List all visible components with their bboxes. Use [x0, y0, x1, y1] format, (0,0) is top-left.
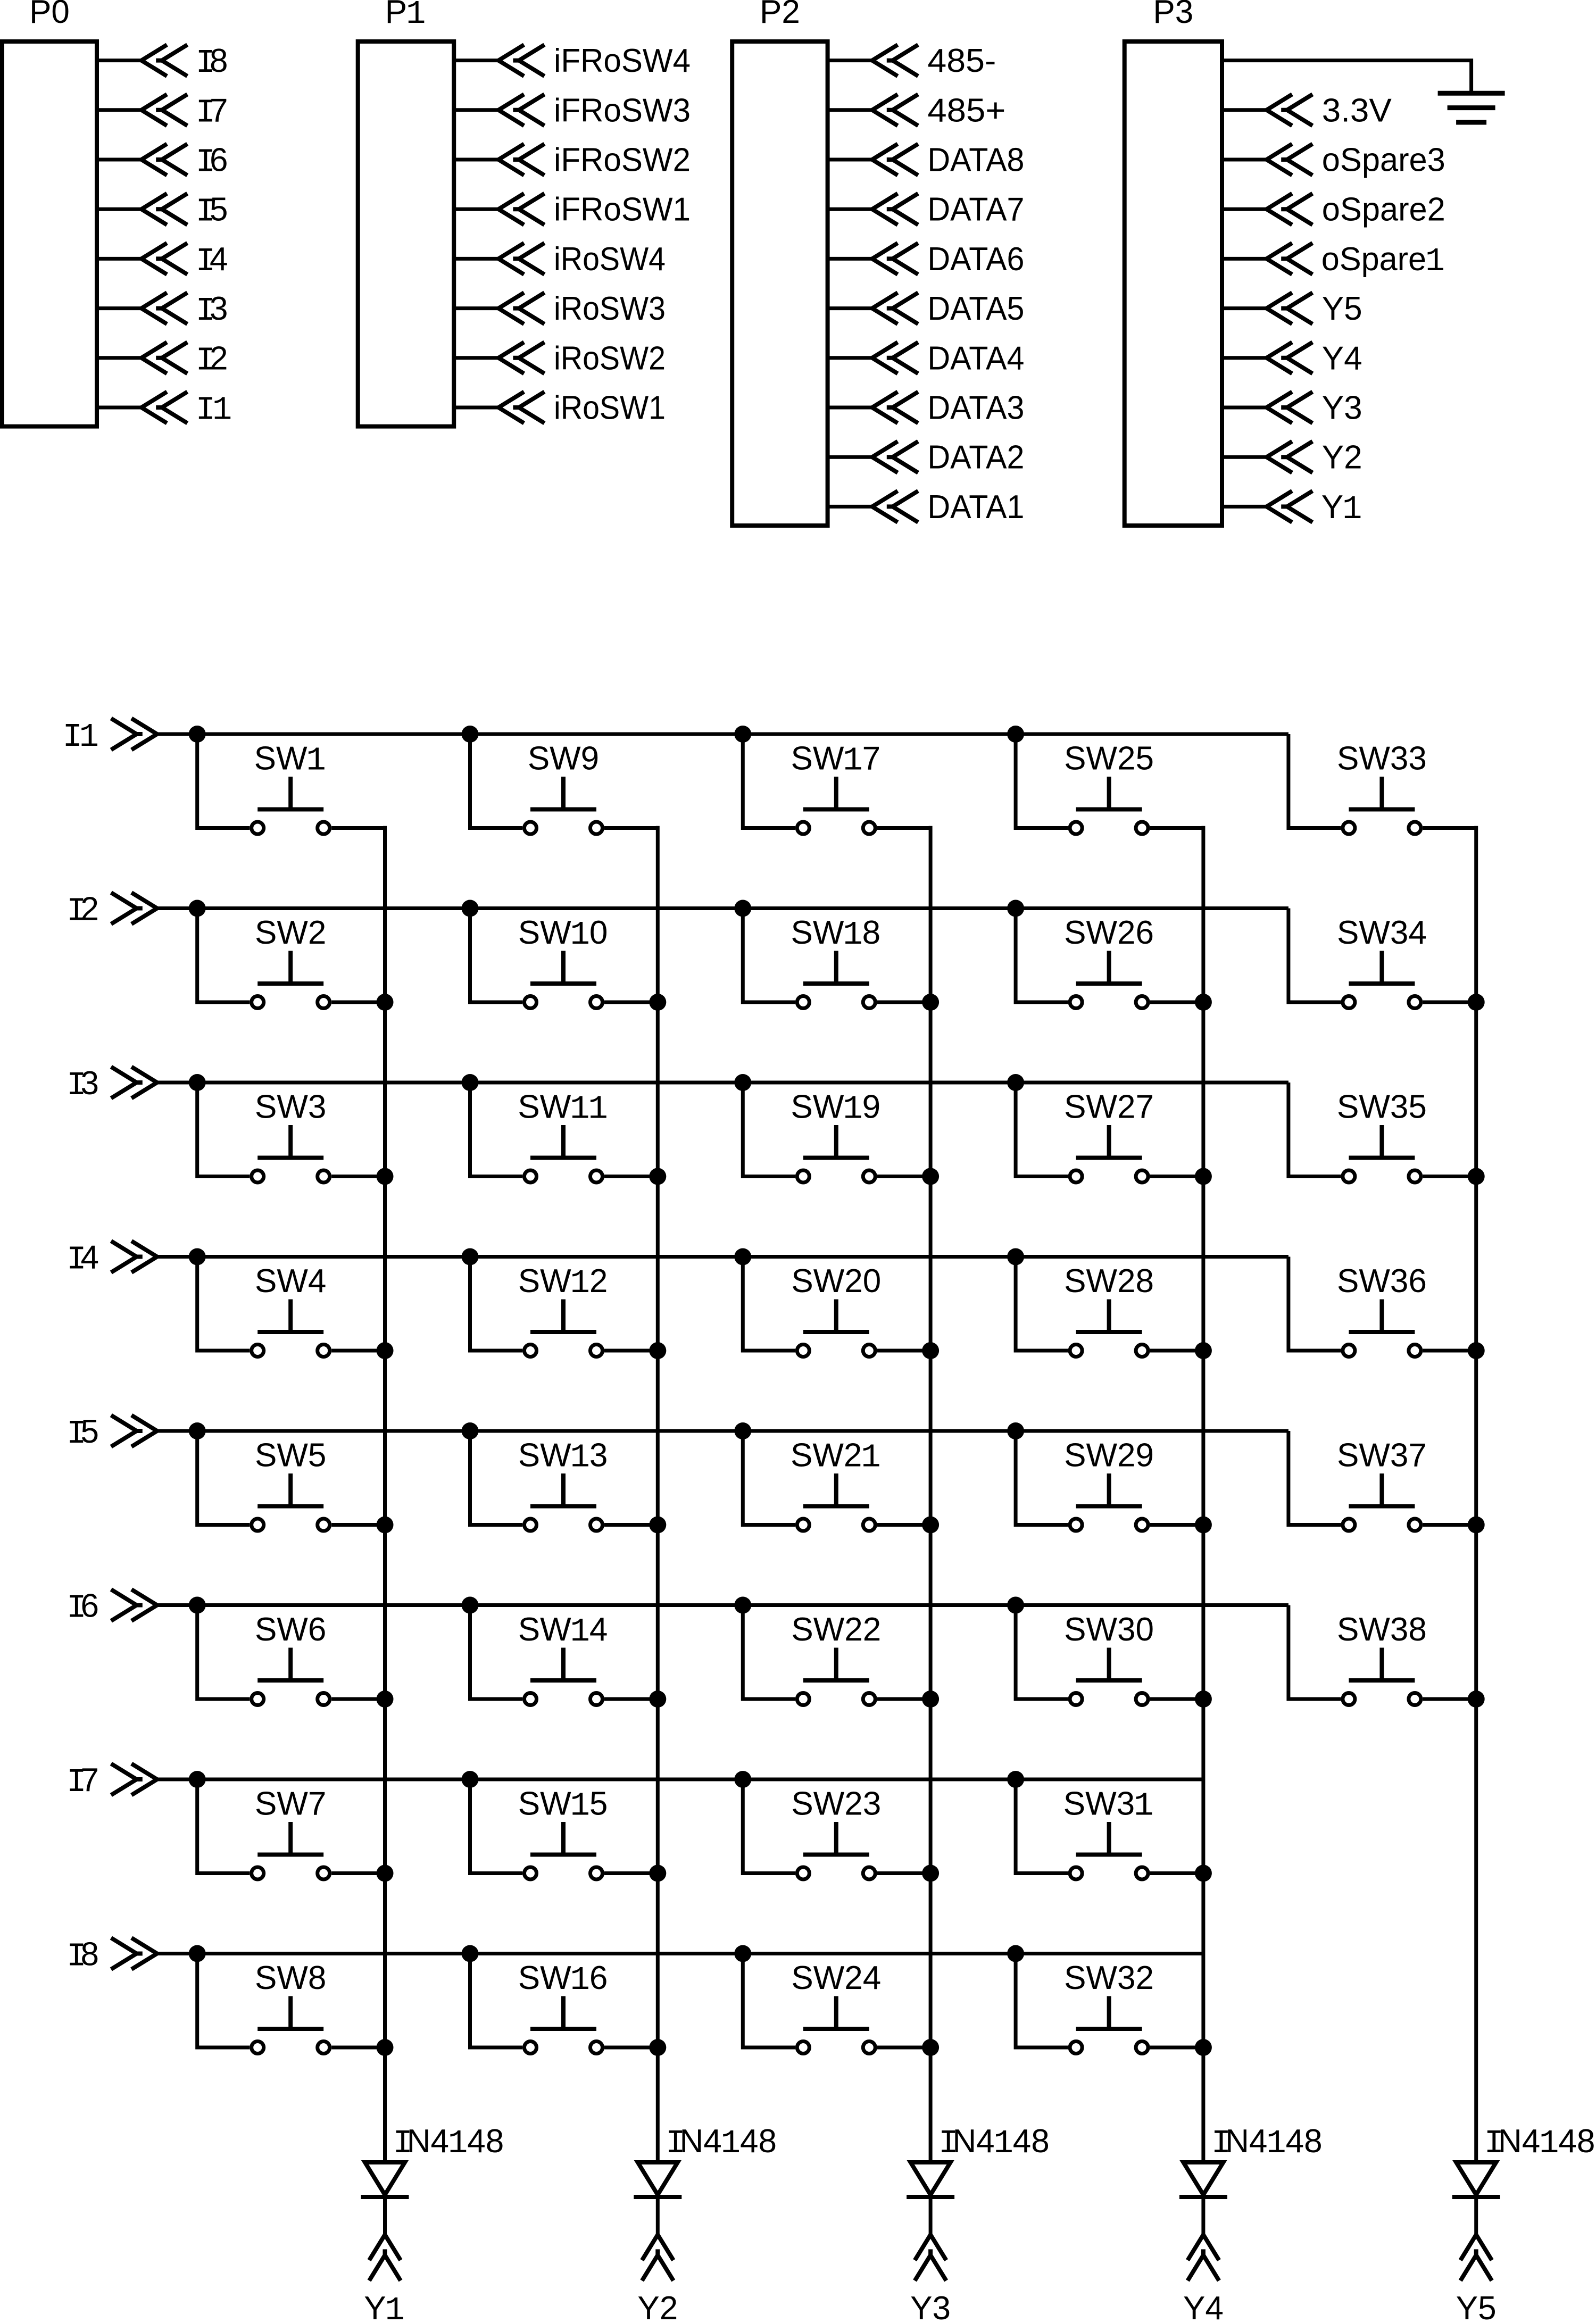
- svg-text:485+: 485+: [927, 92, 1005, 129]
- svg-text:iFRoSW4: iFRoSW4: [554, 43, 691, 79]
- pin oSpare1: wire, input port chevrons and label: [1222, 241, 1445, 280]
- pin Y2: wire, input port chevrons and label: [1222, 439, 1362, 476]
- switch SW1 (push button): stub wire, pins, actuator, label, output wire: [197, 734, 385, 834]
- pin iRoSW2: wire, input port chevrons and label: [454, 340, 666, 377]
- svg-text:SW27: SW27: [1064, 1089, 1154, 1126]
- svg-text:P2: P2: [760, 0, 800, 30]
- input port I5 (matrix row 5) with label: [66, 1413, 157, 1453]
- svg-text:SW3: SW3: [255, 1089, 326, 1126]
- svg-text:SW23: SW23: [791, 1786, 881, 1822]
- junction dots on row I8: [189, 1945, 1024, 1962]
- svg-text:SW35: SW35: [1337, 1089, 1427, 1126]
- pin I7: wire, input port chevrons and label: [97, 92, 228, 131]
- svg-text:IN4148: IN4148: [938, 2123, 1050, 2162]
- pin iFRoSW4: wire, input port chevrons and label: [454, 43, 691, 79]
- switch SW31 (push button): stub wire, pins, actuator, label, output wire: [1016, 1779, 1203, 1879]
- switch SW35 (push button): stub wire, pins, actuator, label, output wire: [1289, 1083, 1476, 1183]
- switch SW7 (push button): stub wire, pins, actuator, label, output wire: [197, 1779, 385, 1879]
- svg-text:DATA5: DATA5: [927, 290, 1024, 327]
- wire: row I3 horizontal bus: [157, 1081, 1289, 1085]
- pin DATA6: wire, input port chevrons and label: [828, 241, 1025, 278]
- wire: column bus 3 (net Y3): [929, 826, 933, 2162]
- ground symbol: [1438, 93, 1505, 122]
- pin oSpare2: wire, input port chevrons and label: [1222, 191, 1445, 228]
- pin DATA1: wire, input port chevrons and label: [828, 489, 1025, 526]
- junction dots on row I7: [189, 1771, 1024, 1788]
- switch SW6 (push button): stub wire, pins, actuator, label, output wire: [197, 1605, 385, 1705]
- svg-text:SW24: SW24: [791, 1960, 881, 1996]
- wire from P3 pin 1 to ground: [1222, 61, 1472, 93]
- pin I5: wire, input port chevrons and label: [97, 191, 228, 231]
- svg-text:I4: I4: [196, 241, 228, 280]
- svg-text:SW20: SW20: [791, 1263, 881, 1300]
- switch SW16 (push button): stub wire, pins, actuator, label, output wire: [470, 1954, 658, 2054]
- svg-text:SW11: SW11: [518, 1089, 608, 1128]
- svg-text:Y3: Y3: [1322, 390, 1362, 427]
- switch SW17 (push button): stub wire, pins, actuator, label, output wire: [743, 734, 930, 834]
- svg-text:Y3: Y3: [910, 2290, 951, 2323]
- connector P1 body: [358, 41, 454, 427]
- switch SW12 (push button): stub wire, pins, actuator, label, output wire: [470, 1257, 658, 1357]
- output port Y1 (down): [369, 2235, 401, 2280]
- junction dots on row I2: [189, 900, 1024, 917]
- svg-text:I1: I1: [63, 718, 99, 756]
- junction dots on row I6: [189, 1597, 1024, 1614]
- pin DATA5: wire, input port chevrons and label: [828, 290, 1025, 327]
- svg-text:485-: 485-: [927, 43, 996, 79]
- switch SW15 (push button): stub wire, pins, actuator, label, output wire: [470, 1779, 658, 1879]
- pin DATA3: wire, input port chevrons and label: [828, 390, 1025, 427]
- switch SW36 (push button): stub wire, pins, actuator, label, output wire: [1289, 1257, 1476, 1357]
- svg-text:I3: I3: [66, 1065, 99, 1104]
- svg-text:SW36: SW36: [1337, 1263, 1427, 1300]
- svg-text:SW37: SW37: [1337, 1437, 1427, 1474]
- svg-text:I6: I6: [196, 142, 228, 181]
- svg-text:SW4: SW4: [255, 1263, 326, 1300]
- wire: column bus 1 (net Y1): [383, 826, 387, 2162]
- junction dots on row I4: [189, 1248, 1024, 1265]
- switch SW2 (push button): stub wire, pins, actuator, label, output wire: [197, 909, 385, 1009]
- pin I2: wire, input port chevrons and label: [97, 340, 228, 379]
- switch SW23 (push button): stub wire, pins, actuator, label, output wire: [743, 1779, 930, 1879]
- wire: column bus 4 (net Y4): [1201, 826, 1205, 2162]
- svg-text:SW32: SW32: [1064, 1960, 1154, 1996]
- svg-text:iRoSW2: iRoSW2: [554, 340, 666, 377]
- connector P2 body: [732, 41, 827, 526]
- svg-text:iRoSW1: iRoSW1: [554, 390, 666, 427]
- pin Y3: wire, input port chevrons and label: [1222, 390, 1362, 427]
- svg-text:SW14: SW14: [518, 1611, 608, 1651]
- junction dots on row I1: [189, 726, 1024, 743]
- svg-text:DATA2: DATA2: [927, 439, 1024, 476]
- connector P3 body: [1125, 41, 1222, 526]
- switch SW34 (push button): stub wire, pins, actuator, label, output wire: [1289, 909, 1476, 1009]
- svg-text:P3: P3: [1153, 0, 1193, 30]
- svg-text:I7: I7: [66, 1762, 99, 1801]
- svg-text:SW9: SW9: [528, 740, 599, 777]
- svg-text:SW26: SW26: [1064, 914, 1154, 951]
- switch SW24 (push button): stub wire, pins, actuator, label, output wire: [743, 1954, 930, 2054]
- wire: column bus 5 (net Y5): [1474, 826, 1478, 2162]
- svg-text:Y1: Y1: [1321, 489, 1362, 528]
- svg-text:DATA1: DATA1: [927, 489, 1024, 526]
- output port Y2 (down): [642, 2235, 674, 2280]
- svg-text:IN4148: IN4148: [1484, 2123, 1595, 2162]
- svg-text:SW22: SW22: [791, 1611, 881, 1648]
- pin iRoSW1: wire, input port chevrons and label: [454, 390, 666, 427]
- svg-text:iFRoSW1: iFRoSW1: [554, 191, 691, 228]
- switch SW10 (push button): stub wire, pins, actuator, label, output wire: [470, 909, 658, 1009]
- pin iFRoSW3: wire, input port chevrons and label: [454, 92, 691, 129]
- junction dots on row I3: [189, 1074, 1024, 1091]
- wire: row I2 horizontal bus: [157, 906, 1289, 910]
- pin I1: wire, input port chevrons and label: [97, 392, 232, 429]
- wire: row I1 horizontal bus: [157, 732, 1289, 736]
- switch SW30 (push button): stub wire, pins, actuator, label, output wire: [1016, 1605, 1203, 1705]
- diode D5 IN4148 (anode up, cathode down): [1452, 2162, 1500, 2234]
- switch SW18 (push button): stub wire, pins, actuator, label, output wire: [743, 909, 930, 1009]
- svg-text:3.3V: 3.3V: [1322, 92, 1392, 129]
- svg-text:Y4: Y4: [1322, 340, 1362, 377]
- pin I8: wire, input port chevrons and label: [97, 43, 228, 82]
- switch SW26 (push button): stub wire, pins, actuator, label, output wire: [1016, 909, 1203, 1009]
- switch SW22 (push button): stub wire, pins, actuator, label, output wire: [743, 1605, 930, 1705]
- svg-text:IN4148: IN4148: [666, 2123, 777, 2162]
- wire: row I5 horizontal bus: [157, 1429, 1289, 1433]
- svg-text:SW17: SW17: [791, 740, 881, 780]
- switch SW20 (push button): stub wire, pins, actuator, label, output wire: [743, 1257, 930, 1357]
- svg-text:P1: P1: [385, 0, 426, 33]
- svg-text:I2: I2: [196, 340, 228, 379]
- switch SW8 (push button): stub wire, pins, actuator, label, output wire: [197, 1954, 385, 2054]
- pin DATA7: wire, input port chevrons and label: [828, 191, 1025, 228]
- svg-text:Y4: Y4: [1183, 2290, 1224, 2323]
- diode D4 IN4148 (anode up, cathode down): [1179, 2162, 1227, 2234]
- svg-text:I5: I5: [196, 191, 228, 231]
- svg-text:I8: I8: [66, 1936, 99, 1976]
- svg-text:SW16: SW16: [518, 1960, 608, 1999]
- svg-text:DATA4: DATA4: [927, 340, 1024, 377]
- svg-text:I4: I4: [66, 1239, 99, 1279]
- switch SW11 (push button): stub wire, pins, actuator, label, output wire: [470, 1083, 658, 1183]
- junction dots on column bus 1: [377, 994, 394, 2056]
- diode D2 IN4148 (anode up, cathode down): [634, 2162, 681, 2234]
- svg-text:I2: I2: [66, 891, 99, 930]
- svg-text:SW21: SW21: [791, 1437, 881, 1477]
- switch SW21 (push button): stub wire, pins, actuator, label, output wire: [743, 1431, 930, 1531]
- input port I7 (matrix row 7) with label: [66, 1762, 157, 1801]
- pin 485-: wire, input port chevrons and label: [828, 43, 996, 79]
- svg-text:iRoSW3: iRoSW3: [554, 290, 666, 327]
- output port Y3 (down): [915, 2235, 946, 2280]
- svg-text:DATA8: DATA8: [927, 142, 1024, 179]
- svg-text:iFRoSW2: iFRoSW2: [554, 142, 691, 179]
- svg-text:SW29: SW29: [1064, 1437, 1154, 1474]
- svg-text:I1: I1: [196, 392, 232, 429]
- wire: row I4 horizontal bus: [157, 1255, 1289, 1259]
- svg-text:SW12: SW12: [518, 1263, 608, 1302]
- svg-text:oSpare3: oSpare3: [1322, 142, 1445, 179]
- svg-text:SW34: SW34: [1337, 914, 1427, 951]
- input port I1 (matrix row 1) with label: [63, 718, 157, 756]
- svg-text:DATA7: DATA7: [927, 191, 1024, 228]
- svg-text:Y2: Y2: [1322, 439, 1362, 476]
- wire: column bus 2 (net Y2): [656, 826, 660, 2162]
- switch SW3 (push button): stub wire, pins, actuator, label, output wire: [197, 1083, 385, 1183]
- svg-text:SW8: SW8: [255, 1960, 326, 1996]
- svg-text:Y1: Y1: [364, 2290, 405, 2323]
- input port I2 (matrix row 2) with label: [66, 891, 157, 930]
- pin iRoSW3: wire, input port chevrons and label: [454, 290, 666, 327]
- pin iRoSW4: wire, input port chevrons and label: [454, 241, 666, 278]
- svg-text:SW6: SW6: [255, 1611, 326, 1648]
- svg-text:Y5: Y5: [1322, 290, 1362, 327]
- switch SW4 (push button): stub wire, pins, actuator, label, output wire: [197, 1257, 385, 1357]
- pin DATA8: wire, input port chevrons and label: [828, 142, 1025, 179]
- output port Y4 (down): [1187, 2235, 1219, 2280]
- switch SW25 (push button): stub wire, pins, actuator, label, output wire: [1016, 734, 1203, 834]
- svg-text:SW13: SW13: [518, 1437, 608, 1477]
- pin DATA2: wire, input port chevrons and label: [828, 439, 1025, 476]
- svg-text:I5: I5: [66, 1413, 99, 1453]
- svg-text:SW10: SW10: [518, 914, 608, 954]
- svg-text:I6: I6: [66, 1588, 99, 1627]
- switch SW27 (push button): stub wire, pins, actuator, label, output wire: [1016, 1083, 1203, 1183]
- pin iFRoSW1: wire, input port chevrons and label: [454, 191, 691, 228]
- junction dots on column bus 4: [1195, 994, 1212, 2056]
- junction dots on column bus 2: [649, 994, 666, 2056]
- input port I6 (matrix row 6) with label: [66, 1588, 157, 1627]
- input port I3 (matrix row 3) with label: [66, 1065, 157, 1104]
- junction dots on row I5: [189, 1422, 1024, 1439]
- svg-text:SW7: SW7: [255, 1786, 326, 1822]
- switch SW33 (push button): stub wire, pins, actuator, label, output wire: [1289, 734, 1476, 834]
- pin I6: wire, input port chevrons and label: [97, 142, 228, 181]
- switch SW38 (push button): stub wire, pins, actuator, label, output wire: [1289, 1605, 1476, 1705]
- pin DATA4: wire, input port chevrons and label: [828, 340, 1025, 377]
- diode D1 IN4148 (anode up, cathode down): [361, 2162, 409, 2234]
- svg-text:SW25: SW25: [1064, 740, 1154, 777]
- svg-text:P0: P0: [29, 0, 70, 30]
- svg-text:DATA3: DATA3: [927, 390, 1024, 427]
- svg-text:SW19: SW19: [791, 1089, 881, 1128]
- svg-text:I8: I8: [196, 43, 228, 82]
- svg-text:SW28: SW28: [1064, 1263, 1154, 1300]
- svg-text:Y2: Y2: [637, 2290, 678, 2323]
- svg-text:IN4148: IN4148: [1211, 2123, 1323, 2162]
- pin 3.3V: wire, input port chevrons and label: [1222, 92, 1392, 129]
- wire: row I7 horizontal bus: [157, 1778, 1203, 1781]
- switch SW5 (push button): stub wire, pins, actuator, label, output wire: [197, 1431, 385, 1531]
- pin Y1: wire, input port chevrons and label: [1222, 489, 1362, 528]
- svg-text:SW15: SW15: [518, 1786, 608, 1825]
- svg-text:iRoSW4: iRoSW4: [554, 241, 666, 278]
- switch SW13 (push button): stub wire, pins, actuator, label, output wire: [470, 1431, 658, 1531]
- svg-text:IN4148: IN4148: [393, 2123, 504, 2162]
- output port Y5 (down): [1460, 2235, 1492, 2280]
- svg-text:oSpare2: oSpare2: [1322, 191, 1445, 228]
- pin oSpare3: wire, input port chevrons and label: [1222, 142, 1445, 179]
- pin 485+: wire, input port chevrons and label: [828, 92, 1006, 129]
- svg-text:DATA6: DATA6: [927, 241, 1024, 278]
- svg-text:iFRoSW3: iFRoSW3: [554, 92, 691, 129]
- svg-text:SW38: SW38: [1337, 1611, 1427, 1648]
- switch SW29 (push button): stub wire, pins, actuator, label, output wire: [1016, 1431, 1203, 1531]
- junction dots on column bus 3: [922, 994, 939, 2056]
- svg-text:I7: I7: [196, 92, 228, 131]
- svg-text:Y5: Y5: [1456, 2290, 1497, 2323]
- switch SW32 (push button): stub wire, pins, actuator, label, output wire: [1016, 1954, 1203, 2054]
- svg-text:SW33: SW33: [1337, 740, 1427, 777]
- svg-text:SW30: SW30: [1064, 1611, 1154, 1648]
- switch SW19 (push button): stub wire, pins, actuator, label, output wire: [743, 1083, 930, 1183]
- svg-text:SW5: SW5: [255, 1437, 326, 1474]
- switch SW9 (push button): stub wire, pins, actuator, label, output wire: [470, 734, 658, 834]
- pin I3: wire, input port chevrons and label: [97, 290, 228, 330]
- input port I4 (matrix row 4) with label: [66, 1239, 157, 1279]
- connector P0 body: [2, 41, 97, 427]
- svg-text:SW2: SW2: [255, 914, 326, 951]
- pin iFRoSW2: wire, input port chevrons and label: [454, 142, 691, 179]
- svg-text:I3: I3: [196, 290, 228, 330]
- pin I4: wire, input port chevrons and label: [97, 241, 228, 280]
- pin Y5: wire, input port chevrons and label: [1222, 290, 1362, 327]
- input port I8 (matrix row 8) with label: [66, 1936, 157, 1976]
- switch SW28 (push button): stub wire, pins, actuator, label, output wire: [1016, 1257, 1203, 1357]
- switch SW37 (push button): stub wire, pins, actuator, label, output wire: [1289, 1431, 1476, 1531]
- switch SW14 (push button): stub wire, pins, actuator, label, output wire: [470, 1605, 658, 1705]
- wire: row I6 horizontal bus: [157, 1603, 1289, 1607]
- diode D3 IN4148 (anode up, cathode down): [907, 2162, 954, 2234]
- junction dots on column bus 5: [1468, 994, 1485, 1708]
- svg-text:oSpare1: oSpare1: [1321, 241, 1445, 280]
- svg-text:SW31: SW31: [1063, 1786, 1154, 1825]
- svg-text:SW1: SW1: [254, 740, 326, 780]
- pin Y4: wire, input port chevrons and label: [1222, 340, 1362, 377]
- svg-text:SW18: SW18: [791, 914, 881, 954]
- wire: row I8 horizontal bus: [157, 1952, 1203, 1955]
